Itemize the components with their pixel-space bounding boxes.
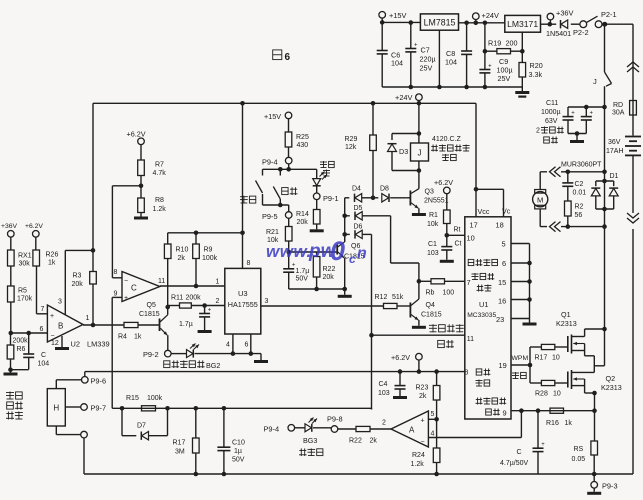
label Ct: [455, 241, 462, 248]
svg-text:RS: RS: [574, 446, 584, 453]
transistor Q1 K2313: [568, 329, 605, 356]
label C8 104: [445, 49, 457, 67]
svg-text:−: −: [421, 439, 425, 446]
svg-text:+24V: +24V: [482, 11, 500, 20]
ground Q6 emitter: [338, 289, 352, 298]
svg-text:104: 104: [445, 58, 457, 67]
svg-text:C: C: [517, 449, 522, 456]
wire U3 pins 4 6 stubs: [233, 334, 251, 354]
connector chevron battery-: [626, 213, 640, 229]
resistor R11: [168, 303, 225, 308]
svg-text:R28: R28: [535, 391, 548, 398]
svg-text:P2-1: P2-1: [601, 10, 617, 19]
wire R21 to Q6 base node: [286, 241, 291, 254]
transistor Q6: [337, 234, 345, 289]
wire Q6 base line: [289, 251, 337, 253]
svg-text:11: 11: [158, 278, 165, 285]
ground U3 pins 4/6: [254, 360, 268, 363]
svg-text:200k: 200k: [13, 338, 29, 345]
wire +36V rail from battery to LM317: [541, 23, 580, 25]
label MUR3060PT: [561, 162, 602, 169]
label C 104: [38, 352, 50, 368]
svg-text:7: 7: [41, 306, 45, 313]
svg-text:2: 2: [536, 128, 540, 135]
wire op-amp A output: [370, 428, 391, 430]
svg-text:D4: D4: [352, 186, 361, 193]
svg-text:+24V: +24V: [395, 93, 413, 102]
label P2-2: [573, 28, 589, 37]
label red overcurrent: [299, 448, 323, 456]
wire C11 feed: [568, 106, 605, 108]
regulator U-LM317T: [505, 15, 541, 32]
svg-text:R14: R14: [296, 211, 309, 218]
svg-text:Q1: Q1: [561, 310, 571, 319]
svg-text:8: 8: [247, 260, 251, 267]
svg-text:R17: R17: [173, 440, 186, 447]
label 1N5401: [546, 29, 571, 38]
node +36V terminal: [547, 13, 554, 26]
wire U1 pin16 link: [511, 297, 532, 302]
label pin 6b: [502, 259, 506, 268]
label input (speed): [438, 340, 454, 348]
capacitor C 104 (left): [23, 333, 34, 370]
label current detect: [476, 398, 507, 405]
node +6.2V terminal (R7): [138, 138, 145, 160]
label P9-8: [327, 415, 343, 424]
svg-text:c: c: [349, 252, 356, 266]
svg-text:P9-1: P9-1: [323, 194, 339, 203]
label C1 103: [427, 241, 439, 257]
wire Q3 base from D8: [406, 197, 410, 199]
ground Q3 emitter: [412, 213, 426, 216]
svg-text:R26: R26: [46, 252, 59, 259]
svg-text:R7: R7: [155, 162, 164, 169]
svg-text:19: 19: [499, 361, 507, 370]
svg-text:−: −: [124, 278, 128, 285]
label 200k: [13, 338, 29, 345]
svg-text:C4: C4: [379, 381, 388, 388]
wire op-amp B V+ pin 3: [65, 248, 95, 315]
label RD 30A: [612, 102, 625, 117]
wire R7/R8 junction: [139, 176, 144, 199]
label D3: [399, 147, 408, 156]
wire U1 pin 9 current sense line: [511, 408, 597, 413]
svg-text:BG2: BG2: [206, 361, 220, 370]
label pin 11: [158, 278, 165, 285]
label C6 104: [391, 51, 403, 68]
label pin 18: [496, 221, 504, 230]
svg-text:17AH: 17AH: [606, 148, 624, 155]
diode D-1N5401: [561, 20, 568, 28]
diode D4: [345, 194, 373, 202]
label +6.2V (left): [25, 223, 43, 230]
motor M: [533, 172, 548, 227]
label +36V: [556, 9, 574, 18]
svg-text:50V: 50V: [296, 276, 309, 283]
wire D column: [342, 198, 347, 242]
wire R23 to op-amp A plus node: [434, 400, 439, 422]
svg-text:1k: 1k: [134, 334, 142, 341]
ground PSU: [515, 87, 529, 98]
svg-text:Vcc: Vcc: [478, 207, 490, 216]
node P9-7 terminal: [81, 404, 88, 411]
label R24 1.2k: [411, 452, 425, 468]
label +6.2V (ref): [391, 353, 410, 362]
svg-text:1: 1: [216, 279, 220, 286]
fuse RD 30A: [630, 101, 637, 116]
svg-text:25V: 25V: [498, 74, 511, 83]
svg-text:M: M: [537, 196, 543, 205]
svg-text:7: 7: [467, 278, 471, 287]
svg-text:0.05: 0.05: [572, 456, 586, 463]
capacitor C9: [479, 51, 492, 89]
wire brake switch top rail: [263, 164, 317, 172]
resistor R14: [313, 199, 320, 224]
wire R1 to U1 pin 10: [445, 224, 465, 238]
svg-text:0: 0: [330, 236, 345, 266]
wire op-amp A minus input to sense: [428, 411, 521, 438]
svg-text:R17: R17: [535, 355, 548, 362]
label low level: [472, 273, 495, 280]
resistor R22 (20k): [313, 252, 320, 289]
node +36V sense terminal: [8, 231, 15, 251]
svg-text:+: +: [488, 63, 492, 69]
svg-text:+: +: [421, 418, 425, 425]
label D6: [354, 224, 363, 231]
label R23 2k: [416, 385, 429, 401]
switch P2-2 contact: [580, 21, 587, 28]
svg-text:−: −: [51, 333, 55, 340]
label D4: [352, 186, 361, 193]
svg-text:R8: R8: [155, 197, 164, 204]
svg-text:20k: 20k: [72, 281, 84, 288]
svg-text:4.7k: 4.7k: [153, 170, 167, 177]
label pin 7: [467, 278, 471, 287]
node +15V terminal (R25): [285, 112, 292, 132]
svg-text:1.7µ: 1.7µ: [296, 268, 310, 275]
wire R19 feed from +24V rail: [483, 21, 488, 54]
svg-text:P9-5: P9-5: [262, 212, 278, 221]
label pin 11: [467, 336, 474, 343]
label R21 10k: [266, 229, 279, 244]
svg-text:R15: R15: [126, 395, 139, 402]
capacitor C10: [217, 408, 230, 476]
svg-text:56: 56: [575, 212, 583, 219]
wire LM317 adj pin: [520, 32, 525, 53]
resistor R3: [90, 250, 97, 284]
svg-text:25V: 25V: [420, 64, 433, 73]
label R22 2k: [349, 438, 377, 445]
svg-text:+6.2V: +6.2V: [391, 353, 410, 362]
resistor R2: [565, 201, 572, 216]
label pin 1: [216, 279, 220, 286]
label P9-1: [323, 194, 339, 203]
label pin 5: [502, 240, 506, 249]
wire main positive column: [602, 22, 607, 72]
svg-text:3.3k: 3.3k: [529, 70, 543, 79]
svg-text:Vc: Vc: [502, 207, 511, 216]
svg-text:C11: C11: [546, 100, 558, 107]
svg-text:RD: RD: [613, 102, 623, 109]
capacitor C8: [461, 21, 472, 90]
resistor R16: [550, 408, 564, 413]
svg-text:BG3: BG3: [303, 436, 317, 445]
wire motor plus line: [540, 170, 604, 175]
svg-text:9: 9: [114, 291, 118, 298]
label RX1 30k: [18, 253, 32, 260]
svg-text:+6.2V: +6.2V: [25, 223, 43, 230]
svg-text:R24: R24: [412, 452, 425, 459]
wire BG2 cathode to U3 pins 4/6 and ground: [195, 351, 262, 360]
wire H bottom to ground terminal: [56, 426, 81, 435]
resistor R1: [444, 210, 451, 224]
label pin 2: [382, 420, 386, 427]
relay coil J: [411, 134, 429, 173]
node +15V terminal: [379, 12, 386, 25]
wire U1 pin6 link: [511, 261, 532, 266]
wire Q1 drain link: [594, 365, 604, 367]
label Q1: [561, 310, 571, 319]
label +24V: [482, 11, 500, 20]
label 4120.C.Z: [432, 136, 462, 143]
node P9-8 terminal: [331, 426, 338, 433]
wire brake switch bottom rail: [263, 203, 289, 212]
wire U1 pin 19 WPM output: [511, 363, 532, 368]
svg-text:U2: U2: [71, 340, 80, 349]
label 1.7u 50V: [296, 268, 310, 283]
svg-text:D3: D3: [399, 147, 408, 156]
svg-text:K2313: K2313: [556, 319, 577, 328]
svg-text:+15V: +15V: [264, 112, 281, 121]
label 1000u: [541, 109, 561, 116]
label power green: [320, 161, 334, 177]
label C 4.7u/50V: [500, 449, 528, 467]
label R7 4.7k: [153, 162, 167, 178]
svg-text:10: 10: [467, 234, 475, 243]
svg-text:D6: D6: [354, 224, 363, 231]
node P9-5 terminal: [285, 212, 292, 219]
svg-text:100: 100: [443, 290, 455, 297]
wire fuse to battery: [632, 115, 634, 136]
label pin 15: [498, 278, 506, 287]
label U1: [479, 300, 488, 309]
svg-text:+36V: +36V: [556, 9, 574, 18]
wire +15V input rail: [382, 21, 420, 23]
wire LM7815 ground pin: [437, 30, 442, 89]
svg-text:MUR3060PT: MUR3060PT: [561, 162, 602, 169]
label P9-5: [262, 212, 278, 221]
label MC33035: [467, 312, 496, 319]
label R22 20k: [323, 266, 336, 281]
transistor Q2 K2313: [568, 370, 595, 393]
svg-text:11: 11: [467, 336, 474, 343]
svg-text:+: +: [541, 442, 545, 448]
label P9-4 (bottom): [264, 425, 280, 434]
wire R24 to ground rail: [434, 463, 439, 477]
svg-text:R11: R11: [171, 295, 183, 302]
wire pull-up bus: [168, 231, 245, 236]
ground C1: [440, 260, 454, 263]
label output enable: [468, 259, 497, 266]
svg-text:P9-4: P9-4: [262, 158, 278, 167]
svg-text:R1: R1: [429, 212, 438, 219]
IC U1 MC33035: [465, 217, 511, 419]
label R6: [17, 346, 26, 353]
wire U3 pin 3 output: [261, 305, 384, 307]
label R14 20k: [296, 211, 309, 226]
svg-text:1.7µ: 1.7µ: [179, 321, 193, 328]
label speed signal: [429, 324, 464, 332]
label in parallel (C11): [544, 137, 558, 144]
resistor RX1: [8, 250, 15, 266]
diode D5: [345, 212, 391, 220]
resistor R24: [433, 419, 440, 462]
svg-text:200k: 200k: [186, 295, 202, 302]
wire U1 pin 11 speed input: [372, 334, 465, 336]
LED power green: [313, 169, 327, 186]
wire R12 to Q4 base: [397, 305, 410, 307]
label pin 8: [114, 269, 118, 276]
label 63V: [545, 118, 558, 125]
label R9 100k: [202, 247, 218, 263]
svg-text:R21: R21: [266, 229, 279, 236]
svg-text:63V: 63V: [545, 118, 558, 125]
label pin 2: [216, 298, 220, 305]
label Rb 100: [426, 290, 455, 297]
svg-text:17: 17: [470, 221, 478, 230]
label P9-7: [91, 404, 107, 413]
label R15 100k: [126, 395, 163, 402]
label R29 12k: [345, 136, 358, 151]
wire +24V top distribution line: [93, 102, 476, 104]
node +6.2V terminal (R1): [444, 187, 451, 210]
svg-text:4.7µ/50V: 4.7µ/50V: [500, 460, 528, 467]
svg-text:6: 6: [40, 326, 44, 333]
wire R26 to op-amp B pin 7: [37, 266, 48, 314]
svg-text:J: J: [418, 149, 422, 158]
wire D5 to Q4 collector node: [391, 216, 419, 281]
op-amp U2-C: [122, 272, 160, 303]
svg-text:30A: 30A: [612, 110, 625, 117]
wire U1 pin23 link: [511, 318, 530, 320]
watermark www.pw0.cn: [266, 236, 367, 266]
label C4 103: [378, 381, 390, 397]
wire BG2 anode line: [171, 353, 187, 355]
label R5 170k: [17, 288, 33, 303]
svg-text:C: C: [131, 284, 137, 293]
wire U1 pin5 link: [511, 244, 530, 319]
svg-text:U1: U1: [479, 300, 488, 309]
svg-text:10: 10: [553, 391, 561, 398]
label +6.2V (R7): [127, 130, 146, 139]
LED BG3: [294, 418, 331, 432]
svg-text:1k: 1k: [48, 260, 56, 267]
LED BG2: [187, 344, 200, 358]
label pin 8: [465, 370, 469, 377]
label +36V (left): [1, 223, 18, 230]
label C11: [546, 100, 558, 107]
svg-text:1000µ: 1000µ: [541, 109, 561, 116]
svg-text:+: +: [414, 42, 418, 48]
label 17AH: [606, 148, 624, 155]
svg-text:23: 23: [496, 315, 504, 324]
wire Q2 source to sense node: [592, 391, 597, 411]
ground R14: [310, 224, 324, 232]
label R19 200: [488, 39, 518, 48]
wire C11 ground link: [568, 131, 586, 140]
wire +24V to relay: [417, 103, 422, 136]
svg-text:0.01: 0.01: [573, 190, 587, 197]
IC U3 HA17555: [225, 268, 261, 334]
label D8: [380, 186, 389, 193]
svg-text:1µ: 1µ: [234, 448, 242, 455]
svg-text:Q5: Q5: [147, 302, 156, 309]
svg-text:1N5401: 1N5401: [546, 29, 571, 38]
wire R10 to Q5 collector node: [165, 259, 170, 310]
wire motor supply column: [602, 105, 607, 366]
svg-text:16: 16: [498, 297, 506, 306]
ground C4: [393, 396, 407, 399]
label right brake: [282, 187, 298, 195]
ground pin2 capacitor: [198, 330, 212, 333]
resistor R10: [164, 233, 171, 259]
label U2 LM339: [71, 340, 110, 349]
label R2 56: [575, 204, 584, 220]
wire speed line: [112, 406, 371, 411]
svg-text:+: +: [50, 313, 54, 320]
label U3 pin 8: [247, 260, 251, 267]
svg-text:LM7815: LM7815: [424, 17, 456, 27]
capacitor 1.7u (pin 2): [199, 306, 212, 331]
label R11 200k: [171, 295, 201, 302]
label pin 16: [498, 297, 506, 306]
switch P2 blade: [587, 16, 598, 22]
svg-text:2k: 2k: [419, 393, 427, 400]
svg-text:R22: R22: [349, 438, 362, 445]
svg-text:104: 104: [38, 361, 50, 368]
svg-text:D1: D1: [610, 173, 619, 180]
label P2-1: [601, 10, 617, 19]
svg-text:B: B: [58, 322, 63, 331]
svg-text:R4: R4: [118, 334, 127, 341]
wire op-amp C pin 9 to speed line: [112, 297, 122, 408]
label pin 4: [431, 431, 435, 438]
svg-text:100k: 100k: [147, 395, 163, 402]
svg-text:8: 8: [114, 269, 118, 276]
svg-text:2: 2: [216, 298, 220, 305]
wire +6.2V reference line: [85, 371, 465, 373]
capacitor C6: [377, 22, 388, 87]
svg-text:18: 18: [496, 221, 504, 230]
node +24V terminal (distribution): [416, 94, 423, 106]
label R10 2k: [176, 247, 189, 263]
connector chevron motor+: [547, 165, 561, 179]
relay contact J: [605, 72, 612, 107]
label R8 1.2k: [153, 197, 167, 213]
label left brake: [240, 196, 256, 204]
svg-text:D7: D7: [137, 423, 146, 430]
wire +24V drop to U1 Vcc: [474, 103, 479, 191]
label Q2: [606, 374, 616, 383]
svg-text:6: 6: [502, 259, 506, 268]
label Q4 C1815: [421, 302, 442, 319]
wire battery negative line: [632, 155, 634, 474]
svg-text:R29: R29: [345, 136, 358, 143]
resistor R7: [138, 160, 145, 176]
svg-text:LM3171: LM3171: [507, 19, 538, 29]
label R4 1k: [118, 334, 142, 341]
svg-text:HA17555: HA17555: [228, 300, 258, 309]
